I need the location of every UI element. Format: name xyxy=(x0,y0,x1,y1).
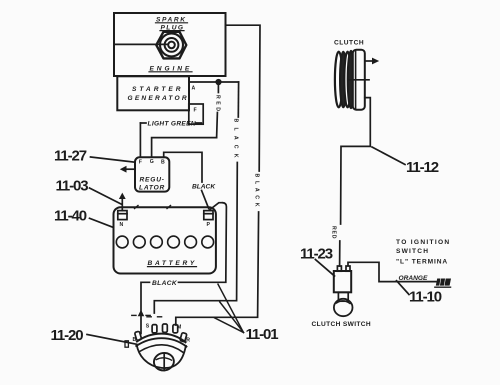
svg-text:STARTER: STARTER xyxy=(132,86,184,93)
svg-text:P: P xyxy=(207,222,211,228)
svg-text:TO IGNITION: TO IGNITION xyxy=(396,239,450,246)
battery negative terminal xyxy=(118,211,127,220)
label BLACK vertical 2 xyxy=(254,174,260,211)
connector terminal at orange wire end xyxy=(435,279,451,288)
svg-text:BATTERY: BATTERY xyxy=(148,260,197,267)
svg-text:"L" TERMINA: "L" TERMINA xyxy=(396,258,448,265)
svg-text:N: N xyxy=(120,222,124,228)
svg-text:S: S xyxy=(146,324,150,330)
label 11-23 xyxy=(300,245,333,262)
svg-text:LIGHT GREEN: LIGHT GREEN xyxy=(148,121,196,128)
clutch center line xyxy=(348,79,369,81)
label 11-03 xyxy=(56,178,89,195)
label RED vertical 2 xyxy=(331,226,337,239)
spark plug symbol xyxy=(156,32,186,59)
pointer line 11-40 xyxy=(90,218,114,227)
svg-text:11-12: 11-12 xyxy=(406,159,439,176)
battery negative mark N xyxy=(120,222,124,228)
regulator terminal letters F G B xyxy=(139,159,165,165)
label BLACK on lower wire xyxy=(152,280,178,287)
label 11-27 xyxy=(54,148,87,165)
label 11-12 xyxy=(406,159,439,176)
pointer lines 11-01 xyxy=(215,284,244,332)
ignition switch 11-20 xyxy=(135,324,187,372)
clutch switch 11-23 xyxy=(334,266,353,316)
label ORANGE xyxy=(399,275,429,282)
pointer line 11-10 xyxy=(397,281,410,295)
battery top edge tick marks xyxy=(135,206,171,209)
terminal nub M xyxy=(173,325,178,333)
svg-text:11-40: 11-40 xyxy=(54,208,87,225)
svg-text:CLUTCH SWITCH: CLUTCH SWITCH xyxy=(312,321,372,328)
underline ENGINE xyxy=(149,71,192,73)
svg-text:BLACK: BLACK xyxy=(254,174,260,211)
terminal nub S xyxy=(152,325,157,333)
label 11-10 xyxy=(409,289,442,306)
pointer line 11-12 xyxy=(372,147,405,165)
svg-text:LATOR: LATOR xyxy=(139,185,165,192)
svg-text:11-27: 11-27 xyxy=(54,148,87,165)
switch body seam arc xyxy=(140,345,183,352)
svg-text:B: B xyxy=(133,337,137,343)
svg-text:F: F xyxy=(194,108,197,114)
label 11-20 xyxy=(51,327,84,344)
switch body top arc xyxy=(137,334,186,343)
wire battery positive to ignition B xyxy=(141,203,226,334)
terminal nub center xyxy=(163,324,168,332)
label REGULATOR xyxy=(139,177,165,192)
wire regulator G riser xyxy=(152,138,217,157)
label BATTERY xyxy=(148,260,197,267)
underline PLUG xyxy=(160,30,184,32)
engine box xyxy=(114,13,226,76)
terminal A label xyxy=(192,86,196,92)
regulator left ground arrow xyxy=(120,166,135,173)
svg-text:R: R xyxy=(186,338,190,344)
terminal nub B xyxy=(135,331,142,340)
wire black vertical (A to ignition S) xyxy=(154,82,238,313)
svg-text:G: G xyxy=(150,159,154,165)
terminal F label xyxy=(194,108,197,114)
svg-text:11-10: 11-10 xyxy=(409,289,442,306)
svg-text:F: F xyxy=(139,160,142,166)
terminal F block xyxy=(189,104,203,124)
label BLACK vertical 1 xyxy=(233,119,239,163)
arrow on ignition B wire xyxy=(138,310,145,316)
regulator box U11-27 xyxy=(135,157,169,191)
label RED vertical xyxy=(215,95,221,113)
key barrel xyxy=(153,352,175,372)
label STARTER GENERATOR xyxy=(128,86,189,102)
pointer line 11-20 xyxy=(87,335,136,348)
wire regulator B to battery positive xyxy=(164,152,209,208)
battery positive terminal xyxy=(204,211,213,220)
underline BATTERY xyxy=(148,266,197,268)
svg-text:REGU-: REGU- xyxy=(140,177,165,184)
wire engine to ignition M (long black) xyxy=(176,25,260,325)
label LIGHT GREEN xyxy=(148,121,196,128)
dashes at ignition S wire end xyxy=(147,316,162,318)
wire red vertical (A to regulator G) xyxy=(217,82,219,138)
svg-text:11-20: 11-20 xyxy=(51,327,84,344)
svg-text:M: M xyxy=(177,325,181,331)
junction dot xyxy=(216,80,221,85)
wire clutch to clutch switch (red) xyxy=(340,98,371,266)
battery box 11-40 xyxy=(114,207,216,273)
ignition terminal letters xyxy=(133,324,191,344)
svg-text:BLACK: BLACK xyxy=(233,119,239,163)
battery positive mark P xyxy=(207,222,211,228)
wire from A terminal xyxy=(189,81,239,83)
label CLUTCH SWITCH xyxy=(312,321,372,328)
svg-text:RED: RED xyxy=(331,226,337,239)
terminal nub R xyxy=(180,332,187,341)
svg-text:ORANGE: ORANGE xyxy=(399,275,429,282)
label 11-40 xyxy=(54,208,87,225)
spark plug lead wire xyxy=(114,43,168,45)
svg-text:RED: RED xyxy=(215,95,221,113)
wire light green (F block to regulator F) xyxy=(140,123,201,157)
svg-text:A: A xyxy=(192,86,196,92)
svg-text:BLACK: BLACK xyxy=(192,184,216,191)
svg-text:11-01: 11-01 xyxy=(246,326,279,343)
svg-text:SWITCH: SWITCH xyxy=(396,248,429,255)
clutch pulley xyxy=(335,50,365,110)
label SPARK PLUG xyxy=(156,17,187,32)
label CLUTCH xyxy=(334,40,364,47)
svg-text:BLACK: BLACK xyxy=(152,280,178,287)
pointer line 11-27 xyxy=(91,157,136,162)
svg-text:CLUTCH: CLUTCH xyxy=(334,40,364,47)
note TO IGNITION SWITCH L TERMINAL xyxy=(396,239,450,265)
pointer line 11-23 xyxy=(315,260,334,277)
switch dome xyxy=(137,344,186,368)
label BLACK above battery xyxy=(192,184,216,191)
label 11-01 xyxy=(246,326,279,343)
svg-text:11-03: 11-03 xyxy=(56,178,89,195)
battery cell caps xyxy=(116,236,213,248)
starter generator box xyxy=(117,76,189,110)
clutch arrow xyxy=(365,58,379,65)
battery ground arrow at negative terminal xyxy=(119,193,126,211)
underline SPARK xyxy=(156,22,188,24)
svg-text:B: B xyxy=(161,160,165,166)
wire clutch switch to ignition L (orange) xyxy=(348,262,436,281)
dashes at ignition B wire xyxy=(132,314,150,316)
label ENGINE xyxy=(150,65,193,72)
pointer line 11-03 xyxy=(90,188,122,204)
svg-text:GENERATOR: GENERATOR xyxy=(128,95,189,102)
